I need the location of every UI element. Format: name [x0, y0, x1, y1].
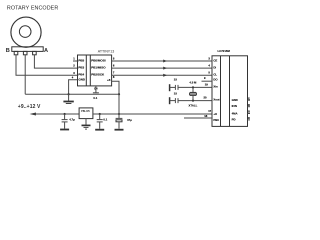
rotary encoder body	[11, 17, 43, 55]
LC left pin labels	[213, 58, 219, 121]
svg-text:Xin: Xin	[213, 85, 218, 89]
svg-text:10: 10	[248, 116, 250, 120]
svg-text:GND: GND	[232, 98, 238, 102]
svg-text:B: B	[6, 48, 10, 54]
svg-text:XTALL: XTALL	[189, 104, 198, 108]
crystal X1	[190, 87, 197, 100]
svg-text:ROTARY ENCODER: ROTARY ENCODER	[7, 6, 58, 12]
svg-text:12: 12	[248, 96, 250, 100]
svg-text:4.5 M: 4.5 M	[189, 80, 197, 84]
IC U2 LC7215M body	[212, 56, 248, 127]
svg-text:ATTINY13: ATTINY13	[98, 49, 115, 53]
capacitor C2 0.1	[95, 113, 104, 130]
junction dot crystal bottom	[192, 100, 194, 102]
rail after regulator	[93, 113, 212, 115]
crystal cap bottom 15	[170, 98, 212, 103]
svg-text:18: 18	[204, 114, 207, 118]
direction arrow on CL wire	[163, 74, 167, 77]
svg-text:4.7µ: 4.7µ	[69, 118, 75, 122]
LC right pin labels	[232, 98, 238, 122]
svg-text:18: 18	[248, 110, 250, 114]
svg-text:4MA: 4MA	[232, 111, 238, 115]
capacitor C1 4.7u	[60, 113, 69, 130]
svg-text:IFIN: IFIN	[232, 104, 237, 108]
crystal cap bottom ground bar	[169, 97, 171, 104]
ground wire under ATtiny	[25, 93, 119, 95]
wire PB0/MOSI to LC CE	[112, 60, 212, 62]
direction arrow on DI wire	[163, 67, 167, 70]
LC right stub IFIN	[248, 106, 251, 108]
svg-text:PB4: PB4	[78, 73, 84, 77]
LC DO stub	[202, 80, 213, 82]
svg-text:19: 19	[205, 83, 208, 87]
wire PB1/MISO to LC DI	[112, 67, 212, 69]
ATtiny GND pin wire to ground junction	[69, 80, 78, 94]
svg-text:15: 15	[174, 92, 178, 96]
capacitor C3 47u electrolytic	[115, 114, 124, 130]
regulator ground	[82, 119, 91, 130]
svg-text:Xout: Xout	[213, 98, 219, 102]
svg-text:15: 15	[174, 77, 178, 81]
svg-text:PB5: PB5	[78, 59, 84, 63]
svg-text:17: 17	[208, 109, 211, 113]
svg-text:GND: GND	[78, 78, 86, 82]
svg-text:PB1/MISO: PB1/MISO	[91, 66, 106, 70]
svg-text:C4: C4	[94, 87, 98, 91]
junction dot gnd wire	[68, 93, 70, 95]
LC right stub PD	[248, 119, 251, 121]
svg-text:PD: PD	[232, 118, 236, 122]
supply rail to regulator	[35, 113, 80, 115]
wire PB2/SCK to LC CL	[112, 74, 212, 76]
crystal cap top ground bar	[169, 84, 171, 91]
svg-text:20: 20	[204, 96, 207, 100]
svg-text:78L05: 78L05	[81, 109, 90, 113]
svg-text:16: 16	[248, 103, 250, 107]
wire encoder B to ATtiny pin 3	[16, 55, 78, 75]
ATtiny left pin labels	[78, 59, 86, 82]
direction arrow on CE wire	[163, 60, 167, 63]
ATtiny +5 pin riser to rail	[112, 81, 119, 114]
capacitor C4	[93, 86, 99, 93]
supply arrow	[30, 113, 36, 116]
junction dot riser x gnd wire	[118, 93, 120, 95]
svg-text:DI: DI	[213, 66, 216, 70]
svg-text:0.1: 0.1	[93, 96, 97, 100]
svg-text:A: A	[44, 48, 48, 54]
svg-text:PB2/SCK: PB2/SCK	[91, 73, 105, 77]
svg-text:+5: +5	[107, 78, 111, 82]
junction dot crystal top	[192, 86, 194, 88]
junction dot riser on rail	[118, 113, 120, 115]
ground symbol below junction	[63, 94, 73, 103]
svg-text:+U: +U	[213, 112, 217, 116]
LC right stub 4MA	[248, 113, 251, 115]
svg-text:LC7215M: LC7215M	[218, 49, 231, 53]
ATtiny pin 1 stub	[73, 60, 78, 62]
LC PB0 wire	[184, 117, 212, 119]
ATtiny right pin labels	[91, 59, 111, 83]
svg-text:PB0/MOSI: PB0/MOSI	[91, 59, 106, 63]
svg-text:PB3: PB3	[78, 66, 84, 70]
wire encoder A to ATtiny pin 2	[34, 55, 77, 68]
svg-text:+9..+12 V: +9..+12 V	[18, 104, 41, 110]
LC right stub GND	[248, 99, 251, 101]
svg-text:PB0: PB0	[213, 118, 219, 122]
svg-text:47µ: 47µ	[127, 118, 132, 122]
svg-text:CE: CE	[213, 58, 217, 62]
regulator 78L05	[79, 108, 93, 119]
wire encoder common down to ground wire	[24, 55, 26, 94]
IC U1 ATTINY13 body	[78, 55, 112, 86]
crystal cap top 15	[170, 85, 212, 90]
svg-text:0.1: 0.1	[103, 118, 107, 122]
svg-text:CL: CL	[213, 73, 217, 77]
